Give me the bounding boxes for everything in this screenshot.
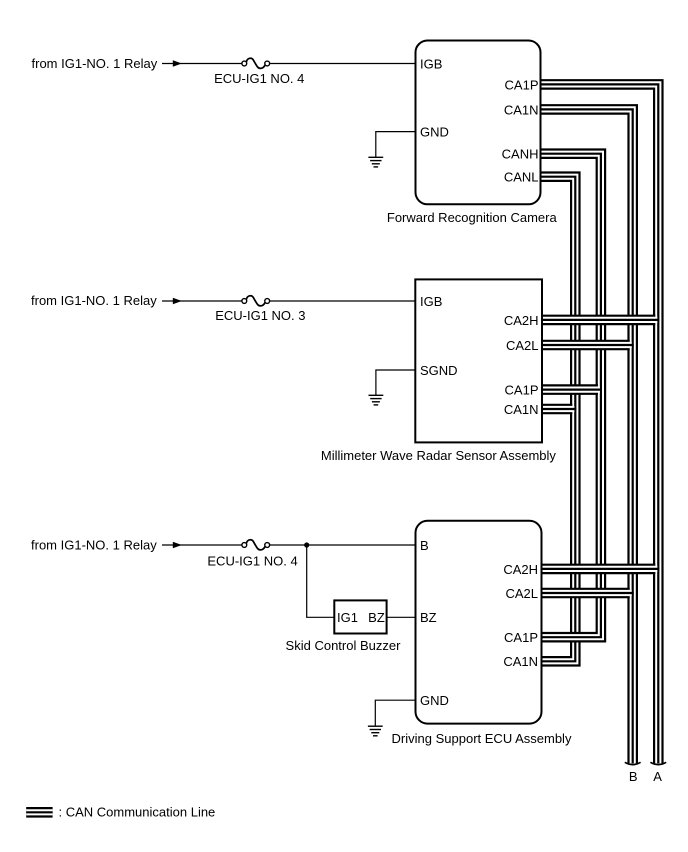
svg-text:A: A: [653, 769, 662, 784]
svg-text:B: B: [420, 538, 429, 553]
svg-text:CANH: CANH: [502, 147, 539, 162]
svg-text:ECU-IG1 NO. 4: ECU-IG1 NO. 4: [207, 554, 297, 569]
svg-text:CA2H: CA2H: [504, 313, 539, 328]
svg-text:Forward Recognition Camera: Forward Recognition Camera: [387, 210, 558, 225]
svg-text:GND: GND: [420, 125, 449, 140]
svg-text:SGND: SGND: [420, 363, 458, 378]
svg-text:CA1P: CA1P: [505, 77, 539, 92]
svg-text:Driving Support ECU Assembly: Driving Support ECU Assembly: [392, 731, 572, 746]
svg-text:B: B: [629, 769, 638, 784]
svg-text:IGB: IGB: [420, 294, 442, 309]
svg-text:ECU-IG1 NO. 3: ECU-IG1 NO. 3: [215, 308, 305, 323]
svg-text:CA1P: CA1P: [505, 383, 539, 398]
svg-text:from IG1-NO. 1 Relay: from IG1-NO. 1 Relay: [31, 538, 157, 553]
svg-text:GND: GND: [420, 693, 449, 708]
svg-text:ECU-IG1 NO. 4: ECU-IG1 NO. 4: [214, 71, 304, 86]
svg-text:: CAN Communication Line: : CAN Communication Line: [59, 805, 216, 820]
svg-text:CA1N: CA1N: [504, 102, 539, 117]
svg-text:Skid Control Buzzer: Skid Control Buzzer: [286, 638, 402, 653]
svg-text:CA2L: CA2L: [506, 338, 539, 353]
svg-text:CA1P: CA1P: [504, 630, 538, 645]
svg-text:IG1: IG1: [337, 610, 358, 625]
svg-text:from IG1-NO. 1 Relay: from IG1-NO. 1 Relay: [31, 293, 157, 308]
svg-text:CA1N: CA1N: [504, 402, 539, 417]
svg-text:CANL: CANL: [504, 170, 539, 185]
svg-text:IGB: IGB: [420, 56, 442, 71]
svg-text:Millimeter Wave Radar Sensor A: Millimeter Wave Radar Sensor Assembly: [321, 448, 557, 463]
svg-text:CA2H: CA2H: [503, 562, 538, 577]
svg-text:CA1N: CA1N: [503, 654, 538, 669]
svg-text:from IG1-NO. 1 Relay: from IG1-NO. 1 Relay: [32, 56, 158, 71]
svg-text:BZ: BZ: [368, 610, 385, 625]
svg-text:BZ: BZ: [420, 610, 437, 625]
svg-text:CA2L: CA2L: [505, 586, 538, 601]
